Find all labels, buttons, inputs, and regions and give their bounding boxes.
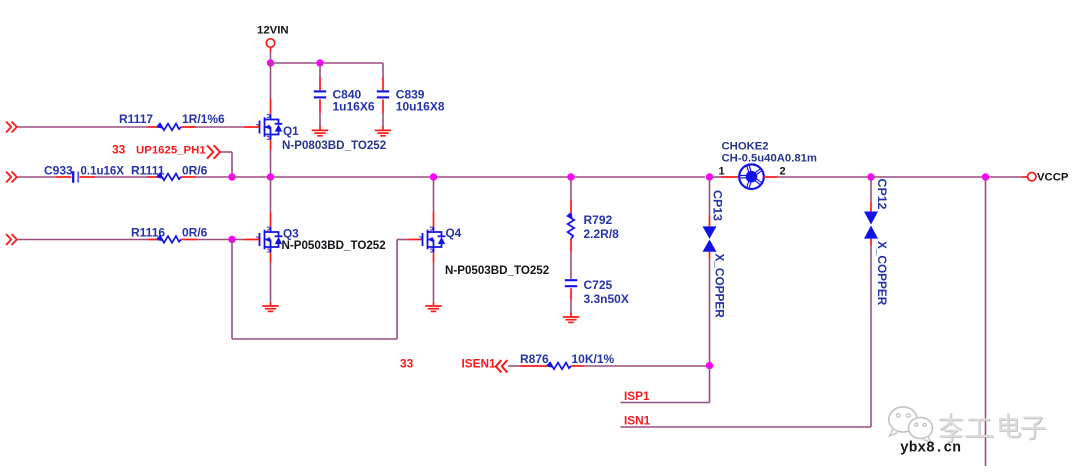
svg-text:ybx8.cn: ybx8.cn [900, 441, 961, 457]
wire R792 to C725 [570, 239, 572, 279]
wire C725 bottom [570, 288, 572, 316]
wire CP12 bottom [870, 239, 872, 427]
resistor R1111 [157, 174, 181, 181]
watermark wechat logo [889, 407, 933, 443]
label Q4 [446, 226, 462, 240]
offpage connector UP1625_PH1 [207, 145, 220, 158]
port VCCP [1022, 172, 1069, 184]
ground Q3 [262, 306, 278, 311]
node phase choke [706, 173, 713, 180]
value N-P0803BD_TO252 [282, 139, 386, 152]
svg-text:1u16X6: 1u16X6 [333, 99, 375, 113]
value 10K/1% [572, 352, 615, 366]
label CP13 [711, 190, 725, 221]
wire to R1117 [17, 126, 157, 128]
resistor R1117 [157, 124, 181, 131]
wire R792 top [570, 179, 572, 213]
wire ISEN1 to R876 [508, 365, 547, 367]
wire C840 top [319, 63, 321, 90]
wire CP13 bottom [709, 252, 711, 363]
wire CP13 top [709, 179, 711, 226]
capacitor C725 [565, 280, 577, 286]
wire Q3 source [270, 253, 272, 306]
node top rail C840 [316, 59, 323, 66]
svg-text:Q1: Q1 [283, 124, 299, 138]
node ISP1 CP13 [706, 362, 713, 369]
net label ISEN1 [462, 356, 497, 370]
svg-text:C933: C933 [44, 164, 73, 178]
value N-P0503BD_TO252 Q3 [282, 239, 386, 252]
label Q1 [283, 124, 299, 138]
value 0R/6 R1116 [182, 226, 208, 240]
wire Q3 drain [270, 179, 272, 227]
svg-text:N-P0803BD_TO252: N-P0803BD_TO252 [282, 139, 386, 152]
wire phase bus [232, 176, 705, 178]
node vccp right [982, 173, 989, 180]
wire C933 to R1111 [80, 176, 158, 178]
net label ISP1 [624, 389, 650, 403]
value CH-0.5u40A0.81m [722, 153, 817, 165]
svg-text:Q3: Q3 [283, 226, 299, 240]
svg-text:ISN1: ISN1 [624, 414, 651, 428]
value 0R/6 R1111 [182, 164, 208, 178]
ground C839 [375, 130, 391, 135]
label Q3 [283, 226, 299, 240]
wire C840 bottom [319, 99, 321, 129]
label C839 [396, 88, 445, 114]
label R876 [520, 352, 549, 366]
pin 1 choke [719, 165, 725, 177]
watermark chinese text [940, 414, 1045, 442]
svg-text:ISEN1: ISEN1 [462, 356, 497, 370]
svg-text:CH-0.5u40A0.81m: CH-0.5u40A0.81m [722, 153, 817, 165]
wire choke pin2 [764, 176, 870, 178]
resistor R1116 [157, 236, 181, 243]
wire Q1 drain [270, 63, 272, 114]
svg-text:R792: R792 [584, 213, 613, 227]
svg-text:10u16X8: 10u16X8 [396, 99, 445, 113]
capacitor C840 [314, 91, 326, 97]
inductor CHOKE2 [739, 164, 764, 189]
copper CP13 [703, 226, 717, 251]
svg-text:2: 2 [780, 165, 786, 177]
label C840 [333, 88, 375, 114]
node phase R792 [567, 173, 574, 180]
svg-text:10K/1%: 10K/1% [572, 352, 615, 366]
node phase Q4 [430, 173, 437, 180]
watermark ybx8.cn [900, 441, 961, 457]
svg-text:C725: C725 [584, 278, 613, 292]
label R1111 [131, 164, 165, 178]
transistor Q4 [419, 227, 445, 253]
wire UP1625_PH1 to phase [221, 152, 233, 175]
wire Q1 source to phase [270, 140, 272, 175]
port chevron R1116 line [6, 234, 17, 245]
svg-text:R1117: R1117 [119, 112, 153, 126]
label CHOKE2 [722, 140, 769, 152]
node phase UP1625 [228, 173, 235, 180]
svg-text:ISP1: ISP1 [624, 389, 650, 403]
svg-text:1R/1%6: 1R/1%6 [182, 112, 225, 126]
svg-text:VCCP: VCCP [1037, 172, 1069, 184]
wire vccp bus [871, 176, 1022, 178]
label X_COPPER CP13 [713, 254, 727, 319]
label 33 page ref [112, 142, 126, 156]
svg-text:0R/6: 0R/6 [182, 164, 208, 178]
wire R1117 to Q1 gate [181, 126, 260, 128]
label CP12 [875, 179, 889, 210]
wire to R1116 [17, 239, 157, 241]
svg-text:N-P0503BD_TO252: N-P0503BD_TO252 [282, 239, 386, 252]
label R792 [584, 213, 620, 241]
wire Q4 drain [433, 179, 435, 227]
svg-text:3.3n50X: 3.3n50X [584, 292, 629, 306]
wire CP12 top [870, 179, 872, 212]
capacitor C933 [73, 171, 78, 183]
wire C839 bottom [382, 99, 384, 129]
net label UP1625_PH1 [136, 144, 206, 156]
port chevron C933 line [6, 172, 17, 183]
node gate tie [228, 236, 235, 243]
svg-text:CP12: CP12 [875, 179, 889, 210]
ground Q4 [425, 306, 441, 311]
wire 12VIN to rail [270, 52, 272, 63]
node phase Q1 Q3 [267, 173, 274, 180]
svg-text:Q4: Q4 [446, 226, 462, 240]
wire gate tie loop [232, 240, 423, 340]
ground C840 [312, 130, 328, 135]
node vccp CP12 [867, 173, 874, 180]
pin 2 choke [780, 165, 786, 177]
wire ISP1 [621, 366, 710, 403]
svg-text:0R/6: 0R/6 [182, 226, 208, 240]
wire R1111 to phase node [181, 176, 232, 178]
svg-text:CP13: CP13 [711, 190, 725, 221]
net label ISN1 [624, 414, 651, 428]
svg-text:33: 33 [112, 142, 126, 156]
wire choke pin1 [711, 176, 740, 178]
ground C725 [563, 317, 579, 322]
svg-text:X_COPPER: X_COPPER [875, 241, 889, 306]
wire R876 to node [571, 365, 710, 367]
label R1117 [119, 112, 153, 126]
svg-text:12VIN: 12VIN [257, 25, 289, 37]
label 33 isen [400, 356, 414, 370]
svg-text:X_COPPER: X_COPPER [713, 254, 727, 319]
offpage connector ISEN1 [496, 360, 508, 373]
wire C839 top [382, 63, 384, 90]
capacitor C839 [377, 91, 389, 97]
port 12VIN [257, 25, 289, 53]
svg-text:1: 1 [719, 165, 725, 177]
svg-text:0.1u16X: 0.1u16X [81, 166, 125, 178]
wire R1116 to Q3 gate [181, 239, 260, 241]
value 0.1u16X [81, 166, 125, 178]
svg-text:R876: R876 [520, 352, 549, 366]
value 1R/1%6 [182, 112, 225, 126]
label C725 [584, 278, 629, 306]
label X_COPPER CP12 [875, 241, 889, 306]
svg-text:33: 33 [400, 356, 414, 370]
wire to C933 [17, 176, 72, 178]
svg-text:N-P0503BD_TO252: N-P0503BD_TO252 [445, 264, 549, 277]
value N-P0503BD_TO252 Q4 [445, 264, 549, 277]
svg-text:UP1625_PH1: UP1625_PH1 [136, 144, 206, 156]
copper CP12 [864, 212, 878, 239]
port chevron R1117 line [6, 122, 17, 133]
svg-text:2.2R/8: 2.2R/8 [584, 227, 620, 241]
label R1116 [131, 226, 165, 240]
wire top rail [271, 62, 384, 64]
transistor Q3 [256, 227, 282, 253]
wire Q4 source [433, 253, 435, 306]
node 12VIN rail junction [267, 59, 274, 66]
wire right vertical [985, 177, 987, 466]
resistor R792 [568, 213, 575, 239]
wire ISN1 [621, 426, 872, 428]
resistor R876 [547, 363, 571, 370]
svg-text:CHOKE2: CHOKE2 [722, 140, 769, 152]
transistor Q1 [256, 114, 282, 140]
label C933 [44, 164, 73, 178]
